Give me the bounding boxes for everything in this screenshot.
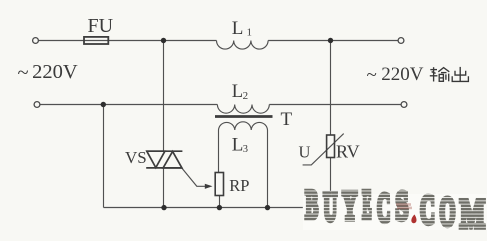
svg-text:U: U [299, 143, 311, 162]
svg-text:L: L [232, 18, 244, 39]
svg-text:U: U [323, 184, 337, 229]
svg-text:O: O [440, 189, 456, 234]
svg-text:M: M [460, 191, 485, 236]
svg-text:E: E [362, 182, 371, 227]
svg-text:RP: RP [229, 176, 249, 195]
svg-text:VS: VS [125, 148, 147, 167]
svg-text:T: T [281, 109, 293, 130]
svg-text:C: C [377, 185, 390, 230]
svg-text:Y: Y [342, 183, 357, 228]
svg-text:C: C [420, 187, 435, 232]
svg-text:FU: FU [88, 15, 114, 37]
svg-text:~220V: ~220V [18, 61, 78, 84]
svg-text:3: 3 [243, 144, 248, 155]
svg-text:B: B [305, 182, 318, 227]
svg-text:RV: RV [336, 142, 360, 162]
svg-text:L: L [232, 134, 244, 155]
svg-text:~220V: ~220V [367, 64, 424, 86]
svg-text:L: L [232, 82, 243, 102]
svg-text:2: 2 [243, 90, 249, 102]
svg-text:1: 1 [247, 27, 253, 39]
